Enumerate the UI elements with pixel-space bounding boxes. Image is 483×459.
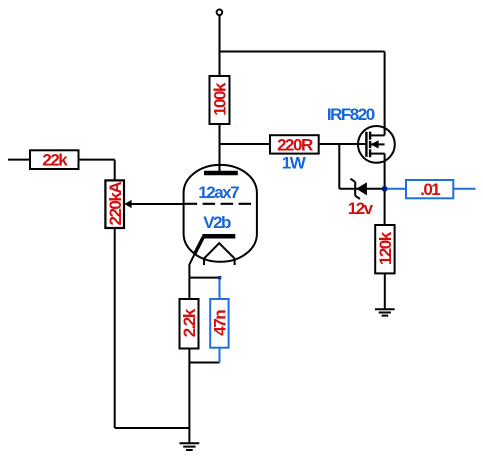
svg-text:100k: 100k xyxy=(211,82,230,116)
svg-text:IRF820: IRF820 xyxy=(327,105,375,124)
svg-text:V2b: V2b xyxy=(203,213,231,232)
svg-text:12v: 12v xyxy=(348,199,374,218)
svg-text:220R: 220R xyxy=(277,135,313,154)
svg-text:220kA: 220kA xyxy=(106,182,125,226)
svg-text:1W: 1W xyxy=(282,153,307,172)
svg-text:120k: 120k xyxy=(376,231,395,265)
svg-text:.01: .01 xyxy=(420,180,440,199)
svg-text:22k: 22k xyxy=(42,151,68,170)
svg-text:12ax7: 12ax7 xyxy=(198,183,239,202)
svg-text:2.2k: 2.2k xyxy=(180,308,199,337)
svg-text:47n: 47n xyxy=(211,310,230,336)
